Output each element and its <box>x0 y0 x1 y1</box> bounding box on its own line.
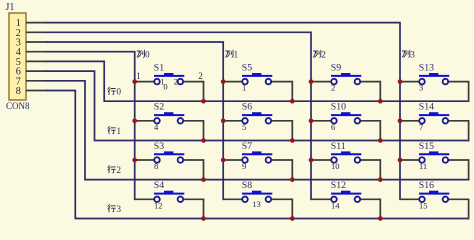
S13 terminal circle pin2 <box>443 79 449 85</box>
S15 terminal circle pin2 <box>443 157 449 163</box>
net label ROW3 (行3) <box>108 204 122 214</box>
svg-text:3: 3 <box>117 204 122 214</box>
svg-text:2: 2 <box>174 76 178 86</box>
wire net COL2 from J1 pin 2 <box>47 32 311 199</box>
svg-text:S12: S12 <box>331 180 346 191</box>
junction ROW1 / S drop col 0 <box>201 138 206 143</box>
svg-text:3: 3 <box>410 49 415 59</box>
S13 terminal circle pin1 <box>419 79 425 85</box>
S8 left lead <box>223 198 242 200</box>
S6 terminal circle pin2 <box>266 118 272 124</box>
svg-text:13: 13 <box>252 199 261 209</box>
svg-text:2: 2 <box>331 83 335 93</box>
junction COL3 / S row 1 <box>398 118 403 123</box>
S14 right lead <box>448 121 468 141</box>
S11 terminal circle pin2 <box>355 157 361 163</box>
svg-text:S8: S8 <box>242 180 252 191</box>
svg-text:12: 12 <box>154 200 163 210</box>
S9 actuator button <box>341 73 350 76</box>
svg-text:S5: S5 <box>242 62 252 73</box>
S4 right lead <box>183 199 203 218</box>
S14 terminal circle pin2 <box>443 118 449 124</box>
svg-text:S3: S3 <box>154 141 164 152</box>
S16 terminal circle pin1 <box>419 197 425 203</box>
wire net ROW2 from J1 pin 7 <box>47 81 469 180</box>
S4 actuator bar <box>154 193 184 195</box>
S3 actuator button <box>164 151 173 154</box>
S5 terminal circle pin1 <box>242 79 248 85</box>
svg-text:S13: S13 <box>419 62 434 73</box>
S15 terminal circle pin1 <box>419 157 425 163</box>
S11 right lead <box>360 160 380 180</box>
switch S13 <box>400 62 469 101</box>
switch S14 <box>400 102 469 141</box>
S7 actuator bar <box>242 153 272 155</box>
S6 right lead <box>271 121 292 141</box>
S6 left lead <box>223 120 242 122</box>
switch S2 <box>135 102 204 141</box>
svg-text:S2: S2 <box>154 102 164 113</box>
junction COL3 / S row 2 <box>398 158 403 163</box>
switch S11 <box>311 141 380 180</box>
S7 terminal circle pin1 <box>242 157 248 163</box>
S8 terminal circle pin2 <box>266 197 272 203</box>
S12 left lead <box>311 198 331 200</box>
S6 actuator button <box>252 112 261 115</box>
connector J1 <box>6 2 47 111</box>
svg-text:CON8: CON8 <box>6 101 30 111</box>
S2 terminal circle pin1 <box>154 118 160 124</box>
S5 actuator bar <box>242 75 272 77</box>
switch S8 <box>223 180 292 218</box>
S3 terminal circle pin2 <box>178 157 184 163</box>
svg-text:0: 0 <box>117 87 122 97</box>
svg-text:S15: S15 <box>419 141 434 152</box>
S1 terminal circle pin1 <box>154 79 160 85</box>
svg-text:15: 15 <box>419 200 428 210</box>
svg-text:0: 0 <box>163 81 167 91</box>
S16 actuator bar <box>419 193 449 195</box>
J1 body <box>9 13 26 100</box>
S8 actuator button <box>252 191 261 194</box>
S10 right lead <box>360 121 380 141</box>
svg-text:1: 1 <box>242 83 246 93</box>
S16 terminal circle pin2 <box>443 197 449 203</box>
S15 actuator bar <box>419 153 449 155</box>
S2 right lead <box>183 121 203 141</box>
svg-text:5: 5 <box>242 122 246 132</box>
S9 actuator bar <box>331 75 361 77</box>
junction COL3 / S row 0 <box>398 79 403 84</box>
S5 terminal circle pin2 <box>266 79 272 85</box>
S10 terminal circle pin2 <box>355 118 361 124</box>
S10 actuator button <box>341 112 350 115</box>
svg-text:7: 7 <box>419 122 423 132</box>
junction COL2 / S row 1 <box>309 118 314 123</box>
S7 actuator button <box>252 151 261 154</box>
svg-text:3: 3 <box>419 83 423 93</box>
svg-text:S7: S7 <box>242 141 252 152</box>
S13 actuator button <box>429 73 438 76</box>
wire net COL3 from J1 pin 1 <box>47 23 400 200</box>
S15 left lead <box>400 159 419 161</box>
S9 terminal circle pin2 <box>355 79 361 85</box>
S9 terminal circle pin1 <box>331 79 337 85</box>
svg-text:14: 14 <box>331 200 340 210</box>
S1 actuator button <box>164 73 173 76</box>
S3 right lead <box>183 160 203 180</box>
svg-text:2: 2 <box>117 165 122 175</box>
S13 right lead <box>448 82 468 102</box>
svg-text:S4: S4 <box>154 180 164 191</box>
S2 left lead <box>135 120 155 122</box>
S10 actuator bar <box>331 114 361 116</box>
net label COL2 (列2) <box>313 49 325 59</box>
junction COL0 / S row 1 <box>132 118 137 123</box>
S2 actuator bar <box>154 114 184 116</box>
S6 terminal circle pin1 <box>242 118 248 124</box>
S1 terminal circle pin2 <box>178 79 184 85</box>
S9 left lead <box>311 81 331 83</box>
S10 terminal circle pin1 <box>331 118 337 124</box>
junction ROW0 / S drop col 2 <box>378 99 383 104</box>
S5 actuator button <box>252 73 261 76</box>
S14 actuator bar <box>419 114 449 116</box>
svg-text:2: 2 <box>321 49 326 59</box>
switch S12 <box>311 180 380 218</box>
net label ROW2 (行2) <box>108 165 121 175</box>
junction COL1 / S row 0 <box>221 79 226 84</box>
svg-text:S1: S1 <box>154 62 164 73</box>
S4 terminal circle pin1 <box>154 197 160 203</box>
svg-text:S11: S11 <box>331 141 346 152</box>
S4 terminal circle pin2 <box>178 197 184 203</box>
svg-text:8: 8 <box>16 86 21 97</box>
svg-text:S10: S10 <box>331 102 346 113</box>
wire net ROW0 from J1 pin 5 <box>47 61 469 101</box>
junction COL2 / S row 2 <box>309 158 314 163</box>
switch S15 <box>400 141 469 180</box>
S11 actuator bar <box>331 153 361 155</box>
S13 actuator bar <box>419 75 449 77</box>
junction COL0 / S row 0 <box>132 79 137 84</box>
S11 actuator button <box>341 151 350 154</box>
S14 terminal circle pin1 <box>419 118 425 124</box>
junction COL1 / S row 2 <box>221 158 226 163</box>
S5 left lead <box>223 81 242 83</box>
junction ROW2 / S drop col 1 <box>290 177 295 182</box>
S5 right lead <box>271 82 292 102</box>
svg-text:6: 6 <box>331 122 335 132</box>
S12 terminal circle pin2 <box>355 197 361 203</box>
svg-text:11: 11 <box>419 161 427 171</box>
S11 terminal circle pin1 <box>331 157 337 163</box>
S12 right lead <box>360 199 380 218</box>
wire net ROW1 from J1 pin 6 <box>47 71 469 140</box>
S2 actuator button <box>164 112 173 115</box>
S12 actuator bar <box>331 193 361 195</box>
svg-text:1: 1 <box>234 49 239 59</box>
S13 left lead <box>400 81 419 83</box>
junction ROW1 / S drop col 1 <box>290 138 295 143</box>
S11 left lead <box>311 159 331 161</box>
net label COL0 (列0) <box>137 49 150 59</box>
junction ROW2 / S drop col 2 <box>378 177 383 182</box>
svg-text:S6: S6 <box>242 102 252 113</box>
switch S6 <box>223 102 292 141</box>
S14 left lead <box>400 120 419 122</box>
S8 terminal circle pin1 <box>242 197 248 203</box>
S14 actuator button <box>429 112 438 115</box>
svg-text:9: 9 <box>242 161 246 171</box>
S10 left lead <box>311 120 331 122</box>
S16 actuator button <box>429 191 438 194</box>
S16 left lead <box>400 198 419 200</box>
S3 left lead <box>135 159 155 161</box>
S7 right lead <box>271 160 292 180</box>
junction ROW3 / S drop col 2 <box>378 216 383 221</box>
S1 actuator bar <box>154 75 184 77</box>
switch S1 <box>135 62 204 101</box>
svg-text:1: 1 <box>117 126 122 136</box>
S1 right lead <box>183 82 203 102</box>
switch S7 <box>223 141 292 180</box>
switch S9 <box>311 62 380 101</box>
net label ROW0 (行0) <box>108 87 122 97</box>
S7 left lead <box>223 159 242 161</box>
S12 terminal circle pin1 <box>331 197 337 203</box>
junction COL0 / S row 2 <box>132 158 137 163</box>
S15 right lead <box>448 160 468 180</box>
junction COL2 / S row 0 <box>309 79 314 84</box>
S4 actuator button <box>164 191 173 194</box>
svg-text:2: 2 <box>198 71 203 81</box>
S3 actuator bar <box>154 153 184 155</box>
S3 terminal circle pin1 <box>154 157 160 163</box>
S2 terminal circle pin2 <box>178 118 184 124</box>
switch S4 <box>135 180 204 218</box>
junction ROW2 / S drop col 0 <box>201 177 206 182</box>
junction ROW3 / S drop col 0 <box>201 216 206 221</box>
svg-text:8: 8 <box>154 161 158 171</box>
wire net COL0 from J1 pin 4 <box>47 52 135 200</box>
svg-text:1: 1 <box>136 71 141 81</box>
S7 terminal circle pin2 <box>266 157 272 163</box>
junction COL1 / S row 1 <box>221 118 226 123</box>
switch S10 <box>311 102 380 141</box>
svg-text:S9: S9 <box>331 62 341 73</box>
S6 actuator bar <box>242 114 272 116</box>
svg-text:10: 10 <box>331 161 340 171</box>
S12 actuator button <box>341 191 350 194</box>
net label ROW1 (行1) <box>108 126 121 136</box>
wire net ROW3 from J1 pin 8 <box>47 91 469 219</box>
junction ROW0 / S drop col 1 <box>290 99 295 104</box>
S15 actuator button <box>429 151 438 154</box>
switch S3 <box>135 141 204 180</box>
junction ROW0 / S drop col 0 <box>201 99 206 104</box>
svg-text:J1: J1 <box>6 2 15 13</box>
net label COL3 (列3) <box>402 49 415 59</box>
svg-text:S16: S16 <box>419 180 434 191</box>
svg-text:S14: S14 <box>419 102 434 113</box>
net label COL1 (列1) <box>226 49 239 59</box>
switch S16 <box>400 180 469 218</box>
S8 right lead <box>271 199 292 218</box>
S8 actuator bar <box>242 193 272 195</box>
S9 right lead <box>360 82 380 102</box>
svg-text:0: 0 <box>145 49 150 59</box>
S1 left lead <box>135 81 155 83</box>
S4 left lead <box>135 198 155 200</box>
switch S5 <box>223 62 292 101</box>
junction ROW1 / S drop col 2 <box>378 138 383 143</box>
S16 right lead <box>448 199 468 218</box>
junction ROW3 / S drop col 1 <box>290 216 295 221</box>
wire net COL1 from J1 pin 3 <box>47 42 223 199</box>
